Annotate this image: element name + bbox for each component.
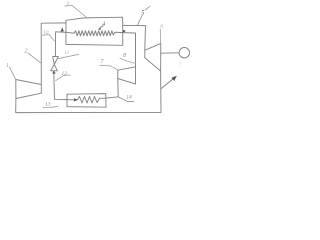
leader 13: [43, 106, 58, 107]
generator circle: [179, 48, 189, 58]
svg-text:14: 14: [126, 94, 132, 101]
leader 3: [65, 5, 88, 18]
valve bowtie: [53, 57, 59, 65]
leader 10: [43, 35, 55, 41]
compressor 1 body: [16, 80, 42, 99]
svg-text:13: 13: [45, 102, 51, 108]
arrowhead below valve pointing up: [52, 71, 55, 74]
svg-text:10: 10: [43, 30, 49, 36]
turbine body: [145, 43, 161, 71]
reference numerals: [6, 2, 182, 108]
leader 12: [56, 75, 70, 81]
leader 6: [159, 29, 161, 43]
leader 7: [100, 65, 118, 69]
svg-text:12: 12: [62, 71, 68, 77]
leader 8: [120, 58, 136, 63]
svg-text:1: 1: [6, 63, 9, 69]
wire valve inlet (from heater coil): [54, 32, 56, 56]
svg-text:6: 6: [160, 24, 163, 30]
cooler coil zigzag: [67, 96, 118, 103]
svg-text:3: 3: [65, 2, 69, 8]
wire cooler to recompressor: [117, 79, 119, 97]
svg-text:4: 4: [102, 21, 105, 28]
dark mark above valve-inlet wire (label 9'): [61, 27, 64, 31]
arrowhead of label 4 leader: [98, 28, 101, 30]
leader lines: [10, 5, 161, 107]
cooler box: [67, 94, 106, 108]
leader 4: [99, 26, 103, 29]
svg-text:2: 2: [25, 49, 28, 55]
turbine exhaust arrow line: [161, 79, 174, 89]
leader 1: [10, 67, 16, 79]
heater box (recuperator shell): [66, 17, 123, 45]
leader 11: [58, 54, 79, 58]
heater coil zigzag: [56, 31, 136, 67]
leader 14: [119, 97, 134, 102]
generator shaft: [161, 52, 179, 54]
arrow on cooler coil inlet: [74, 98, 78, 101]
dark blob right of heater box (label 9): [123, 30, 126, 33]
wire compressor inlet / bottom loop / turbine outlet: [16, 71, 161, 113]
wire heater box to turbine: [123, 25, 146, 50]
leader 2: [28, 53, 41, 63]
arrowheads and dark marks: [52, 27, 177, 101]
recompressor 7 body: [118, 67, 136, 84]
svg-text:8: 8: [123, 53, 126, 59]
wire valve outlet to cooler: [54, 71, 67, 100]
svg-text:11: 11: [64, 50, 69, 56]
leader 5: [137, 6, 149, 25]
turbine exhaust arrowhead: [172, 76, 177, 81]
wire compressor to heater box: [41, 23, 66, 85]
svg-text:5: 5: [141, 10, 144, 16]
